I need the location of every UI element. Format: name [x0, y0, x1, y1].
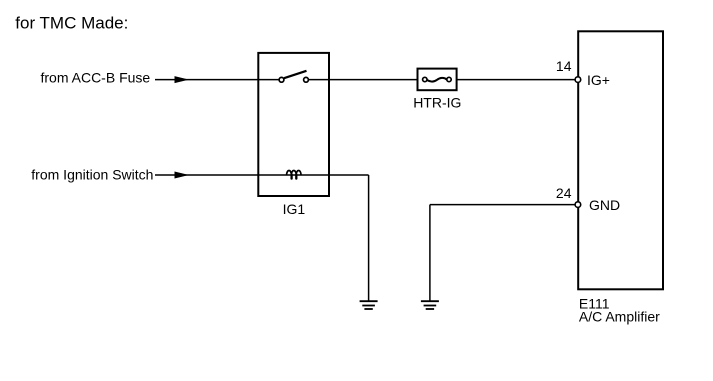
svg-text:for TMC Made:: for TMC Made: [15, 14, 128, 33]
svg-text:A/C Amplifier: A/C Amplifier [579, 309, 660, 325]
svg-text:IG+: IG+ [587, 72, 610, 88]
svg-text:IG1: IG1 [283, 201, 306, 217]
svg-text:24: 24 [556, 185, 572, 201]
svg-text:HTR-IG: HTR-IG [413, 95, 461, 111]
svg-text:from Ignition Switch: from Ignition Switch [31, 167, 153, 183]
svg-text:GND: GND [589, 197, 620, 213]
svg-text:14: 14 [556, 58, 572, 74]
svg-text:from ACC-B Fuse: from ACC-B Fuse [41, 70, 151, 86]
